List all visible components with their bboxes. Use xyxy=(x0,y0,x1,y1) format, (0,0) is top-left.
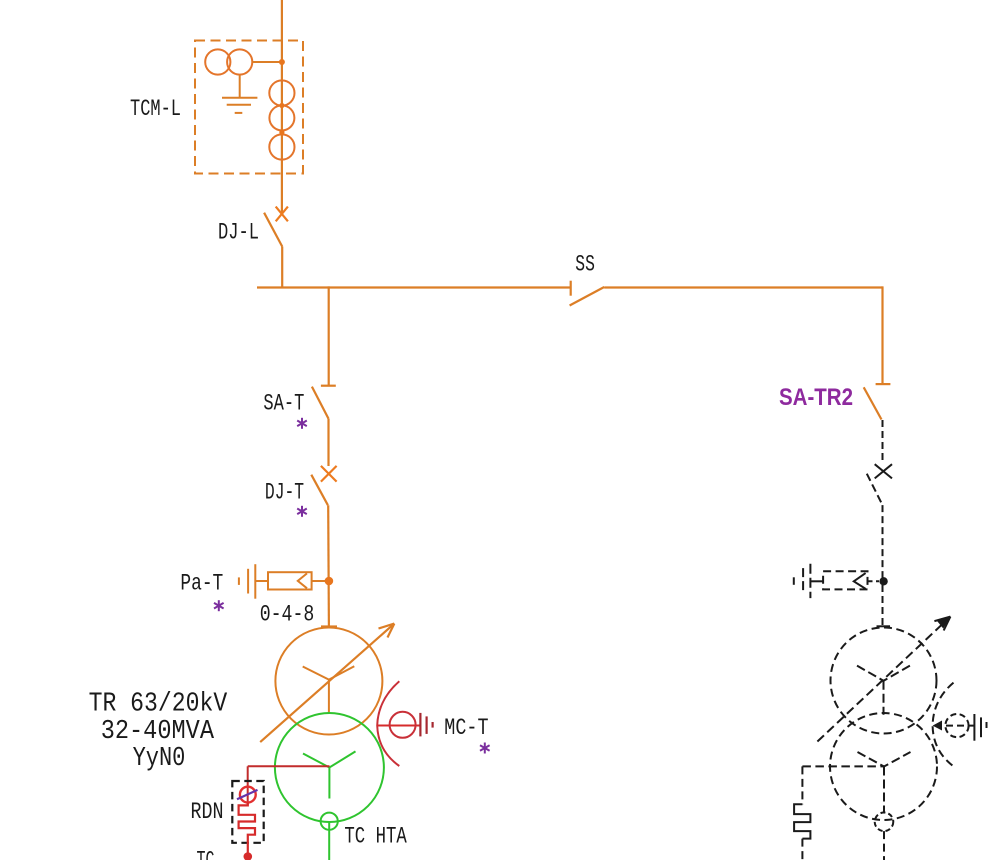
circuit breaker DJ-TR2 cross mark xyxy=(875,464,892,478)
svg-text:TCM-L: TCM-L xyxy=(130,96,181,123)
busbar left segment xyxy=(257,286,571,288)
wire: incoming HV line top xyxy=(281,0,283,214)
TR2 thermal probe arcs (dashed) xyxy=(933,683,954,767)
TR2 probe arrowhead xyxy=(933,721,942,731)
TR2 primary terminal tick xyxy=(877,625,891,627)
transformer TR2 secondary winding (dashed circle) xyxy=(830,713,937,820)
TR2 CT small circle (dashed) xyxy=(875,813,894,832)
thermal probe MC-T arcs (arrowhead curves) xyxy=(377,681,399,766)
arrester arrow chevron xyxy=(298,573,307,588)
disconnector SA-T fixed contact tick xyxy=(321,385,336,387)
svg-text:RDN: RDN xyxy=(191,799,224,826)
wire: bus down to SA-TR2 xyxy=(881,286,883,384)
svg-text:DJ-T: DJ-T xyxy=(265,480,304,507)
wire: arrester box to node (dashed) xyxy=(868,580,880,582)
breaker blade (dashed) xyxy=(867,474,883,505)
asterisk below DJ-T xyxy=(297,506,307,517)
node between windings 2-3 xyxy=(279,130,284,135)
ground symbol (rotated, dashed bars) xyxy=(809,564,811,598)
TR2 probe shaft (dashed) xyxy=(935,725,974,727)
TR2 OLTC arrow (dashed) xyxy=(817,617,950,742)
arrester arrow chevron xyxy=(854,573,866,589)
current transformer TC HTA (small circle on secondary) xyxy=(321,813,338,830)
MC-T sensor circle xyxy=(390,712,416,738)
asterisk below Pa-T xyxy=(214,600,224,611)
circuit breaker DJ-L cross mark xyxy=(276,207,288,222)
svg-text:MC-T: MC-T xyxy=(444,715,488,742)
wire: DJ-L to busbar xyxy=(281,247,283,289)
RDN diagonal mark through circle xyxy=(237,790,258,799)
wire: breaker to arrester node (dashed) xyxy=(882,505,884,578)
secondary wye symbol xyxy=(303,751,356,798)
wire: SA-T to DJ-T xyxy=(327,419,329,467)
wire: neutral down xyxy=(247,766,249,805)
RDN CT circle xyxy=(240,787,256,803)
wire: below SA-TR2 blade (dashed) xyxy=(882,420,884,464)
svg-text:TC HTA: TC HTA xyxy=(344,823,407,850)
transformer TCM-L enclosure (dashed box) xyxy=(195,41,303,174)
svg-text:TR 63/20kV: TR 63/20kV xyxy=(89,689,228,719)
svg-text:SS: SS xyxy=(575,252,595,279)
ground symbol (rotated) for Pa-T xyxy=(254,564,256,599)
wire: arrester to ground xyxy=(810,580,823,582)
ground symbol xyxy=(222,97,257,99)
svg-text:0-4-8: 0-4-8 xyxy=(260,602,315,629)
TR2 neutral resistor meander xyxy=(794,804,810,838)
node at bottom of RDN lead xyxy=(244,852,253,860)
wire: node down to transformer TR2 (dashed) xyxy=(882,585,884,626)
wire: TR2 feeder down (dashed) xyxy=(883,831,885,860)
wire: arrester to ground xyxy=(255,580,268,582)
transformer TR primary terminal tick xyxy=(321,625,337,627)
voltage transformer windings (3 stacked circles) xyxy=(269,80,294,105)
svg-text:Pa-T: Pa-T xyxy=(180,570,223,597)
wire: CT to main line xyxy=(252,61,282,63)
disconnector SA-TR2 fixed contact tick xyxy=(876,383,891,385)
wire: neutral from secondary wye to RDN (red) xyxy=(248,765,330,767)
svg-text:TC: TC xyxy=(197,848,215,860)
surge arrester Pa-T: node dot on main wire xyxy=(325,577,334,586)
transformer TR primary winding (orange circle) xyxy=(275,628,382,735)
current transformer TCM-L (two overlapping circles) xyxy=(205,49,230,74)
TR2 primary wye symbol (dashed) xyxy=(857,666,910,715)
svg-text:YyN0: YyN0 xyxy=(133,743,186,773)
svg-text:32-40MVA: 32-40MVA xyxy=(101,716,214,746)
MC-T shaft xyxy=(377,725,420,727)
svg-text:DJ-L: DJ-L xyxy=(218,220,259,247)
TR2 neutral wire (dashed) xyxy=(802,765,884,767)
transformer TR2 primary winding (dashed circle) xyxy=(831,628,937,734)
wire: secondary feeder down xyxy=(328,821,330,860)
node between windings 1-2 xyxy=(279,103,284,108)
wire: bus down to SA-T xyxy=(328,286,330,385)
neutral grounding resistor RDN dashed enclosure xyxy=(232,781,263,843)
switch SS fixed contact tick xyxy=(570,281,572,296)
wire: DJ-T down to transformer xyxy=(327,505,330,626)
svg-text:SA-TR2: SA-TR2 xyxy=(779,384,853,411)
transformer TR secondary winding (green circle) xyxy=(275,713,384,822)
switch SS blade xyxy=(570,287,605,306)
wire: resistor to bottom (dashed) xyxy=(801,839,803,860)
circuit breaker DJ-T cross mark xyxy=(321,466,337,482)
primary wye symbol xyxy=(303,666,355,713)
wire: neutral down (dashed) xyxy=(801,766,803,804)
arrester body box xyxy=(268,572,312,589)
surge arrester node dot xyxy=(879,577,887,585)
OLTC arrow through transformer xyxy=(260,624,394,743)
asterisk below MC-T xyxy=(480,743,490,754)
TR2 probe ground bars xyxy=(973,714,975,741)
arrester body box (dashed) xyxy=(823,571,867,589)
svg-text:SA-T: SA-T xyxy=(263,391,304,418)
busbar right segment xyxy=(604,286,882,288)
disconnector SA-T blade xyxy=(312,387,329,419)
RDN resistor meander xyxy=(239,803,255,854)
disconnector SA-TR2 blade xyxy=(864,387,882,419)
wire: CT down to ground xyxy=(239,75,241,98)
MC-T ground bars xyxy=(419,713,421,737)
breaker DJ-T blade xyxy=(311,475,328,506)
TR2 probe circle (dashed) xyxy=(945,714,968,737)
asterisk below SA-T xyxy=(297,418,307,429)
wire: arrester to node xyxy=(312,580,325,582)
TR2 secondary wye symbol (dashed) xyxy=(858,752,911,813)
disconnector DJ-L blade xyxy=(264,213,282,247)
node on main line at CT tap xyxy=(279,59,285,65)
